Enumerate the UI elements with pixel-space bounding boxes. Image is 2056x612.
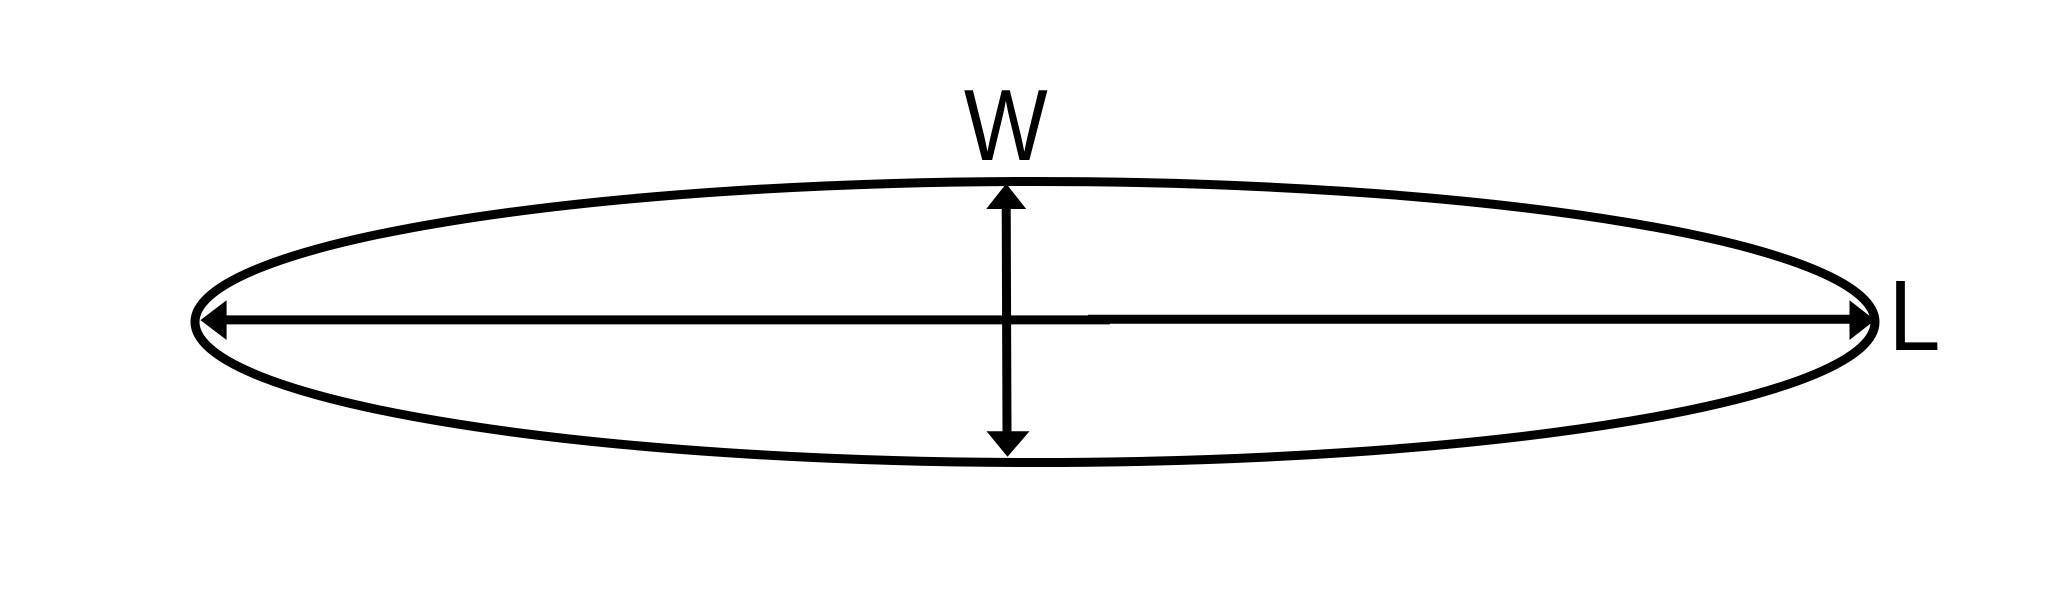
ellipse outline <box>195 182 1875 463</box>
width arrow bottom arrowhead <box>987 431 1030 457</box>
length arrow right arrowhead <box>1850 300 1876 340</box>
svg-text:W: W <box>964 70 1048 183</box>
length arrow shaft left segment <box>218 315 1110 324</box>
length arrow left arrowhead <box>200 300 226 340</box>
svg-text:L: L <box>1889 259 1941 372</box>
length arrow shaft right segment <box>1088 315 1856 324</box>
width arrow top arrowhead <box>986 184 1026 209</box>
width arrow shaft <box>1002 206 1012 434</box>
